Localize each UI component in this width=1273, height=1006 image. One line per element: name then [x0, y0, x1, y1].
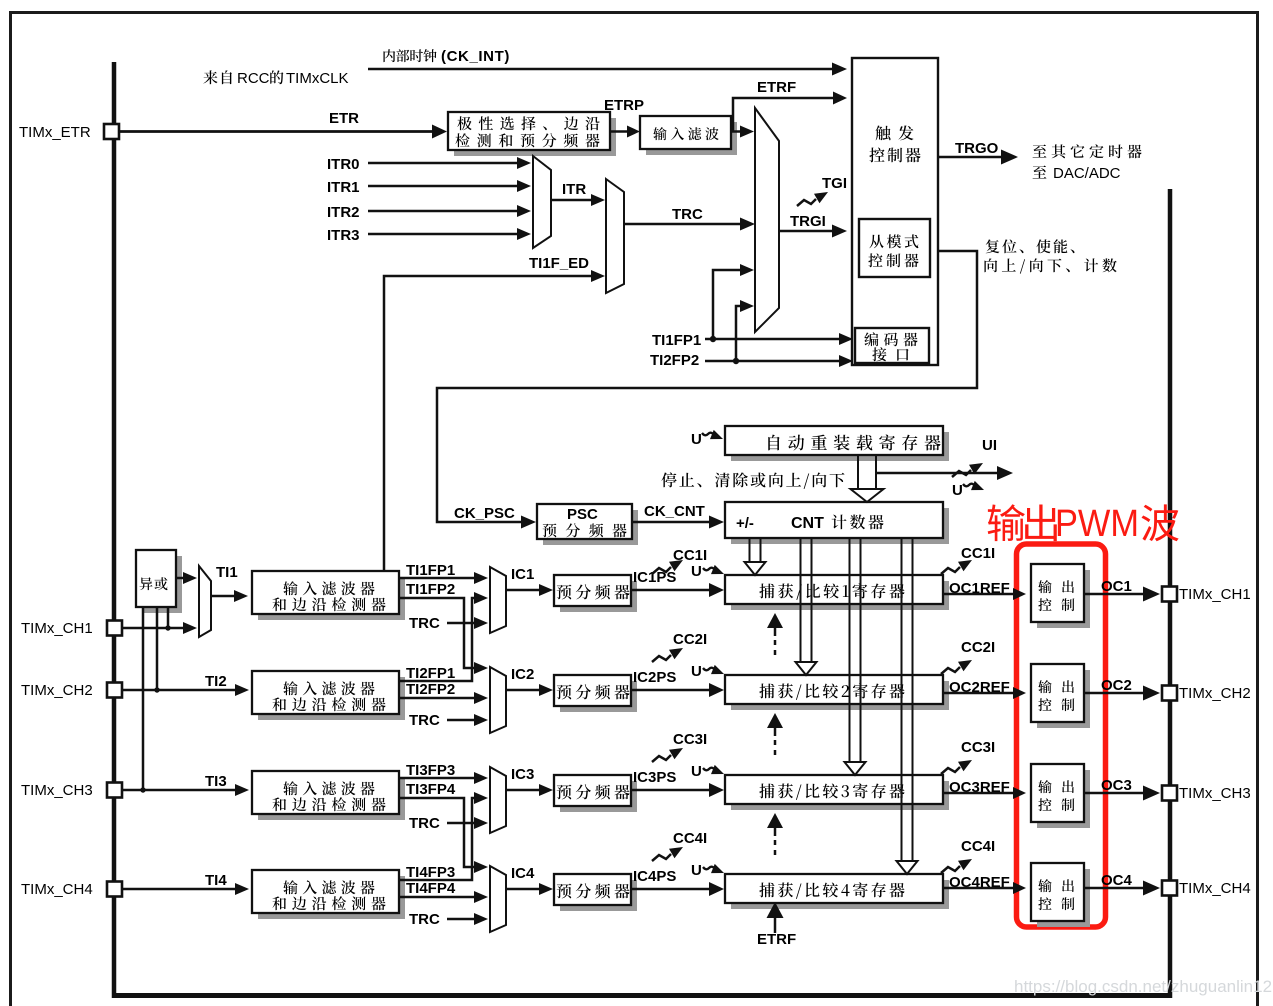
block: slave mode controller (从模式控制器) — [859, 219, 930, 277]
wire IC3PS to capture register — [631, 789, 711, 792]
svg-text:CC1I: CC1I — [961, 545, 995, 562]
svg-text:CC2I: CC2I — [961, 639, 995, 656]
block: encoder interface (编码器接口) — [855, 328, 929, 363]
wire TRC into IC1 mux — [447, 622, 476, 625]
mux: trigger input selector — [755, 108, 779, 332]
svg-text:TI2FP2: TI2FP2 — [406, 681, 455, 698]
svg-text:IC3PS: IC3PS — [633, 769, 676, 786]
wire ITR2 — [368, 210, 519, 213]
mux: IC4 input selector — [490, 866, 506, 932]
wire OC3REF — [943, 792, 1014, 795]
svg-text:TI1FP2: TI1FP2 — [406, 581, 455, 598]
block: PSC prescaler (PSC 预分频器) — [543, 510, 638, 545]
wire ETR to polarity block — [119, 130, 434, 133]
wire TI4 — [122, 888, 237, 891]
wire CK_INT to trigger controller — [368, 68, 834, 70]
svg-text:TIMxCLK: TIMxCLK — [286, 70, 349, 87]
wire IC4 to prescaler — [506, 888, 541, 891]
wire TI3 — [122, 789, 237, 792]
mux: IC3 input selector — [490, 767, 506, 833]
block: IC3 prescaler (预分频器) — [560, 781, 637, 812]
wire TRGI to trigger controller — [779, 230, 834, 233]
svg-text:https://blog.csdn.net/zhuguanl: https://blog.csdn.net/zhuguanlin1211 — [1014, 977, 1273, 996]
label 向上/向下、计数 — [984, 258, 1116, 273]
label 内部时钟 (internal clock) — [383, 49, 436, 62]
svg-text:TRC: TRC — [409, 911, 440, 928]
svg-text:ITR: ITR — [562, 181, 586, 198]
svg-text:TI3FP3: TI3FP3 — [406, 762, 455, 779]
svg-text:TI1FP1: TI1FP1 — [406, 562, 455, 579]
svg-text:TI1F_ED: TI1F_ED — [529, 255, 589, 272]
mux: IC1 input selector — [490, 567, 506, 633]
svg-text:CC4I: CC4I — [673, 830, 707, 847]
svg-text:U: U — [691, 663, 702, 680]
svg-text:TIMx_CH2: TIMx_CH2 — [21, 682, 93, 699]
label 至其它定时器 (to other timers) — [1033, 144, 1142, 158]
wire OC1 to pin — [1084, 593, 1144, 595]
hollow arrow: counter to CCR1 — [745, 538, 766, 575]
block: output control 1 (输出控制) — [1037, 570, 1090, 628]
svg-text:IC3: IC3 — [511, 766, 534, 783]
wire IC3 to prescaler — [506, 789, 541, 792]
event arrow U into auto-reload — [702, 433, 714, 436]
wire TI2FP1 cross up — [399, 598, 476, 681]
wire IC2 to prescaler — [506, 689, 541, 692]
hollow arrow: counter to CCR3 — [845, 538, 866, 775]
svg-text:CK_CNT: CK_CNT — [644, 503, 705, 520]
pin TIMx_CH2 (right) — [1162, 686, 1177, 701]
hollow arrow: counter to CCR2 — [796, 538, 817, 675]
wire ITR0 — [368, 162, 519, 165]
svg-text:TGI: TGI — [822, 175, 847, 192]
svg-text:ETRP: ETRP — [604, 97, 644, 114]
pin TIMx_CH1 (right) — [1162, 587, 1177, 602]
block: capture/compare register 1 (捕获/比较1寄存器) — [731, 581, 949, 610]
svg-text:DAC/ADC: DAC/ADC — [1053, 165, 1121, 182]
red highlight rectangle around output control column — [1017, 544, 1106, 927]
block: IC4 prescaler (预分频器) — [560, 880, 637, 911]
wire TI2FP2 branch to trigger mux — [736, 306, 742, 361]
pin TIMx_CH1 (left) — [107, 621, 122, 636]
svg-text:CC2I: CC2I — [673, 631, 707, 648]
svg-text:TIMx_CH3: TIMx_CH3 — [1179, 785, 1251, 802]
svg-text:IC1: IC1 — [511, 566, 534, 583]
svg-text:ITR3: ITR3 — [327, 227, 360, 244]
svg-text:TIMx_CH1: TIMx_CH1 — [21, 620, 93, 637]
pin TIMx_CH3 (right) — [1162, 786, 1177, 801]
wire TI2 — [122, 689, 237, 692]
wire TI3FP4 cross down — [399, 798, 476, 867]
svg-text:ETR: ETR — [329, 110, 359, 127]
pin TIMx_CH3 (left) — [107, 783, 122, 798]
wire TI1FP1 branch to trigger mux — [713, 270, 742, 339]
wire OC2 to pin — [1084, 692, 1144, 694]
wire ITR to TRC mux — [551, 199, 593, 202]
svg-text:ITR2: ITR2 — [327, 204, 360, 221]
svg-text:(CK_INT): (CK_INT) — [441, 48, 510, 65]
block: trigger controller (触发控制器) — [852, 58, 938, 365]
wire: slave mode controller to prescaler (reset/enable/count) — [437, 251, 977, 522]
wire: right TIMx bus vertical — [1168, 189, 1173, 998]
svg-text:TRGI: TRGI — [790, 213, 826, 230]
wire ITR1 — [368, 185, 519, 188]
event arrow CC4I left — [652, 854, 671, 861]
svg-text:OC2: OC2 — [1101, 677, 1132, 694]
svg-text:OC3: OC3 — [1101, 777, 1132, 794]
svg-text:TIMx_CH1: TIMx_CH1 — [1179, 586, 1251, 603]
wire TI1FP1 to IC mux — [399, 577, 476, 580]
event arrow CC3I right — [941, 767, 960, 774]
block: output control 3 (输出控制) — [1037, 770, 1090, 828]
label 停止、清除或向上/向下 — [661, 472, 844, 488]
svg-text:TI2FP1: TI2FP1 — [406, 665, 455, 682]
wire IC1 to prescaler — [506, 589, 541, 592]
wire TI1 to input filter — [211, 595, 236, 598]
svg-text:TI4FP4: TI4FP4 — [406, 880, 456, 897]
wire TRGO — [938, 156, 1003, 158]
pin TIMx_CH4 (left) — [107, 882, 122, 897]
block: CH2 input filter & edge detector (输入滤波器和边沿检测器) — [258, 677, 405, 720]
svg-text:RCC: RCC — [237, 70, 270, 87]
label 复位、使能、 — [986, 239, 1075, 253]
svg-text:TRC: TRC — [672, 206, 703, 223]
svg-text:U: U — [691, 763, 702, 780]
block: CH3 input filter & edge detector (输入滤波器和边沿检测器) — [258, 777, 405, 820]
wire IC2PS to capture register — [631, 689, 711, 692]
svg-text:TIMx_CH3: TIMx_CH3 — [21, 782, 93, 799]
wire XOR input from CH2 — [156, 607, 159, 690]
wire: ETRF / dashed event column into CCR bottoms — [767, 613, 783, 628]
svg-text:PWM: PWM — [1055, 503, 1139, 545]
svg-text:TI4FP3: TI4FP3 — [406, 864, 455, 881]
svg-text:TIMx_ETR: TIMx_ETR — [19, 124, 91, 141]
wire TI2FP2 to encoder interface — [705, 360, 841, 363]
event arrow CC2I right — [941, 667, 960, 674]
wire CK_CNT — [632, 521, 711, 524]
wire TI1F_ED from CH1 input filter — [384, 276, 593, 571]
label 至 DAC/ADC — [1033, 166, 1047, 179]
svg-text:ITR0: ITR0 — [327, 156, 360, 173]
svg-text:TRC: TRC — [409, 712, 440, 729]
label 来自RCC的TIMxCLK — [203, 70, 232, 84]
svg-text:IC4: IC4 — [511, 865, 535, 882]
block: input filter (输入滤波) — [646, 122, 737, 155]
block: CH4 input filter & edge detector (输入滤波器和边沿检测器) — [258, 876, 405, 919]
wire OC2REF — [943, 692, 1014, 695]
pin TIMx_CH2 (left) — [107, 683, 122, 698]
wire TI1FP1 to encoder interface — [705, 338, 841, 341]
block: capture/compare register 2 (捕获/比较2寄存器) — [731, 681, 949, 710]
svg-text:TIMx_CH2: TIMx_CH2 — [1179, 685, 1251, 702]
block: IC2 prescaler (预分频器) — [560, 681, 637, 712]
wire TRC into IC3 mux — [447, 822, 476, 825]
svg-text:TI1: TI1 — [216, 564, 238, 581]
wire IC4PS to capture register — [631, 888, 711, 891]
wire TI3FP3 to IC mux — [399, 777, 476, 780]
svg-text:TI3FP4: TI3FP4 — [406, 781, 456, 798]
mux: IC2 input selector — [490, 667, 506, 733]
mux: TI1 source selector — [199, 566, 211, 637]
block: XOR (异或) — [142, 556, 182, 613]
event arrow CC1I right — [941, 567, 960, 574]
event arrow CC1I left — [652, 567, 671, 574]
wire OC3 to pin — [1084, 792, 1144, 794]
block: output control 2 (输出控制) — [1037, 670, 1090, 728]
svg-text:U: U — [691, 563, 702, 580]
svg-text:TI3: TI3 — [205, 773, 227, 790]
block: auto-reload register (自动重装载寄存器) — [731, 432, 949, 461]
svg-text:IC4PS: IC4PS — [633, 868, 676, 885]
wire TI4FP4 to IC mux — [399, 896, 476, 899]
block: polarity selection / edge detection / prescaler (极性选择、边沿检测和预分频器) — [454, 118, 616, 156]
wire TI1FP2 cross down — [399, 598, 476, 668]
wire TIMx_CH1 to TI1 mux — [122, 627, 185, 630]
svg-text:TI2: TI2 — [205, 673, 227, 690]
svg-text:OC4: OC4 — [1101, 872, 1133, 889]
svg-text:CC3I: CC3I — [673, 731, 707, 748]
svg-text:CNT: CNT — [791, 515, 824, 532]
block: CNT counter (+/- CNT 计数器) — [731, 508, 949, 544]
svg-text:TI4: TI4 — [205, 872, 227, 889]
svg-text:TRC: TRC — [409, 615, 440, 632]
block: IC1 prescaler (预分频器) — [560, 581, 637, 612]
wire ETRP — [610, 130, 629, 133]
label 输出PWM波 (output PWM, red) — [988, 504, 1057, 541]
wire: bottom bus connector — [112, 993, 1172, 998]
wire OC4 to pin — [1084, 887, 1144, 889]
svg-text:CC3I: CC3I — [961, 739, 995, 756]
block: output control 4 (输出控制) — [1037, 869, 1090, 927]
block: CH1 input filter & edge detector (输入滤波器和边沿检测器) — [258, 577, 405, 620]
wire TI2FP2 to IC mux — [399, 697, 476, 700]
event arrow TGI — [797, 199, 816, 206]
wire TI4FP3 cross up — [399, 798, 476, 880]
wire IC1PS to capture register — [631, 589, 711, 592]
mux: TRC selector — [606, 179, 624, 293]
wire XOR input from CH3 — [142, 607, 145, 790]
wire: left TIMx bus vertical — [112, 62, 117, 998]
svg-text:PSC: PSC — [567, 506, 598, 523]
svg-text:IC2: IC2 — [511, 666, 534, 683]
svg-text:U: U — [952, 482, 963, 499]
wire TRC into IC4 mux — [447, 918, 476, 921]
wire XOR output to TI1 mux — [176, 577, 185, 580]
event arrow CC2I left — [652, 655, 671, 662]
hollow arrow: counter to CCR4 — [897, 538, 918, 874]
hollow arrow: auto-reload to counter — [851, 455, 884, 502]
svg-text:U: U — [691, 431, 702, 448]
svg-text:UI: UI — [982, 437, 997, 454]
svg-text:CC4I: CC4I — [961, 838, 995, 855]
svg-text:ETRF: ETRF — [757, 79, 796, 96]
wire XOR input from CH1 — [167, 607, 170, 628]
svg-text:TI2FP2: TI2FP2 — [650, 352, 699, 369]
wire TRC into IC2 mux — [447, 719, 476, 722]
svg-text:ITR1: ITR1 — [327, 179, 360, 196]
svg-text:TIMx_CH4: TIMx_CH4 — [21, 881, 93, 898]
svg-text:TI1FP1: TI1FP1 — [652, 332, 701, 349]
svg-text:TIMx_CH4: TIMx_CH4 — [1179, 880, 1251, 897]
svg-text:OC1: OC1 — [1101, 578, 1132, 595]
event arrow CC3I left — [652, 755, 671, 762]
svg-text:CK_PSC: CK_PSC — [454, 505, 515, 522]
svg-text:U: U — [691, 862, 702, 879]
wire ETRF to mux and trigger controller — [731, 130, 742, 133]
block: capture/compare register 3 (捕获/比较3寄存器) — [731, 781, 949, 810]
wire TRC to trigger mux — [624, 223, 742, 226]
wire OC4REF — [943, 887, 1014, 890]
svg-text:+/-: +/- — [736, 515, 754, 532]
svg-text:IC2PS: IC2PS — [633, 669, 676, 686]
wire OC1REF — [943, 593, 1014, 596]
pin TIMx_ETR — [104, 124, 119, 139]
event arrow CC4I right — [941, 866, 960, 873]
wire: stop/clear/up-down event line — [876, 472, 1001, 475]
mux: ITR selector — [533, 156, 551, 248]
wire ITR3 — [368, 233, 519, 236]
block: capture/compare register 4 (捕获/比较4寄存器) — [731, 880, 949, 909]
pin TIMx_CH4 (right) — [1162, 881, 1177, 896]
svg-text:TRC: TRC — [409, 815, 440, 832]
svg-text:ETRF: ETRF — [757, 931, 796, 948]
svg-text:TRGO: TRGO — [955, 140, 999, 157]
